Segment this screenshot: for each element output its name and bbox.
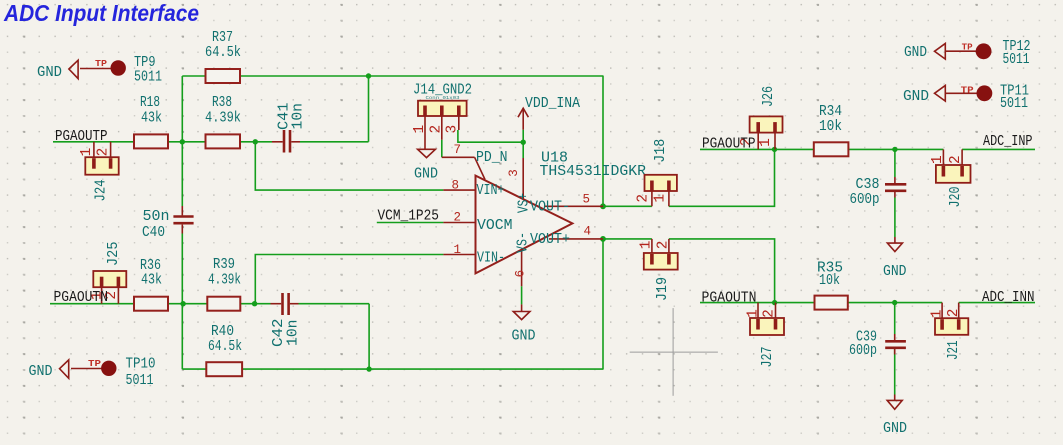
connector J21: [929, 303, 968, 360]
svg-text:4.39k: 4.39k: [205, 111, 241, 127]
junction R38/C41 VIN+ tap: [253, 139, 258, 144]
svg-text:PGAOUTN: PGAOUTN: [54, 290, 109, 306]
svg-text:43k: 43k: [141, 111, 162, 127]
svg-text:VIN-: VIN-: [477, 251, 505, 267]
svg-text:50n: 50n: [143, 209, 170, 225]
ground below C38: [883, 237, 907, 280]
connector J27: [746, 303, 784, 368]
svg-text:3: 3: [444, 125, 460, 134]
svg-text:GND: GND: [29, 364, 53, 380]
svg-text:ADC_INN: ADC_INN: [982, 290, 1035, 306]
wire J18 to J26: [669, 149, 775, 206]
svg-text:2: 2: [946, 309, 962, 318]
svg-text:R39: R39: [213, 257, 235, 273]
svg-text:1: 1: [746, 309, 762, 318]
wire PGAOUTN right row: [700, 302, 815, 304]
svg-text:TP: TP: [962, 42, 973, 53]
svg-text:PGAOUTN: PGAOUTN: [702, 291, 757, 307]
svg-text:2: 2: [428, 125, 444, 134]
connector J20: [930, 149, 971, 207]
wire J14 pin2 to PD_N: [441, 140, 443, 158]
wire VOUT+ to J19: [603, 238, 652, 240]
wire vertical x182 top: [181, 76, 183, 206]
svg-text:GND: GND: [883, 264, 907, 280]
svg-text:PD_N: PD_N: [476, 150, 508, 166]
ground below C39: [883, 395, 907, 438]
svg-text:VOCM: VOCM: [477, 218, 513, 234]
wire C38 to GND: [894, 198, 896, 238]
svg-text:PGAOUTP: PGAOUTP: [702, 137, 756, 153]
svg-text:1: 1: [758, 138, 774, 147]
svg-text:ADC_INP: ADC_INP: [983, 134, 1033, 150]
junction C38 tap: [892, 147, 897, 152]
op-amp pin 8 VIN+: [443, 179, 504, 200]
wire VOUT- to J18: [603, 205, 652, 207]
svg-text:GND: GND: [883, 421, 907, 437]
wire to ADC_INN: [959, 302, 1035, 304]
svg-text:VIN+: VIN+: [477, 183, 505, 199]
resistor R34: [814, 104, 849, 156]
junction J27 pin2 node: [772, 300, 777, 305]
svg-text:7: 7: [454, 143, 462, 157]
svg-text:TP: TP: [95, 58, 107, 69]
junction R37 top row: [366, 73, 371, 78]
svg-text:J27: J27: [760, 347, 776, 368]
connector J18: [636, 139, 677, 207]
svg-text:10n: 10n: [286, 320, 302, 347]
wire R36 to R39: [168, 303, 207, 305]
wire J19 to PGAOUTN node: [669, 239, 775, 303]
wire PGAOUTP right row: [700, 148, 814, 150]
junction R40 bottom row: [366, 366, 371, 371]
wire C42 down to R40 row: [368, 304, 370, 369]
connector J24: [79, 142, 119, 202]
svg-text:3: 3: [507, 169, 521, 177]
svg-text:J19: J19: [655, 277, 671, 301]
svg-text:2: 2: [761, 309, 777, 318]
svg-text:6: 6: [514, 270, 528, 278]
svg-text:R40: R40: [211, 324, 234, 340]
svg-text:C40: C40: [142, 225, 165, 241]
svg-text:GND: GND: [37, 65, 62, 81]
junction C39 tap: [892, 300, 897, 305]
svg-text:J24: J24: [94, 179, 110, 201]
svg-text:GND: GND: [904, 45, 927, 61]
op-amp pin 3 VS+: [507, 158, 533, 213]
wire R40 row up to VOUT+: [602, 239, 604, 369]
test point TP10: [29, 357, 156, 390]
svg-text:1: 1: [930, 155, 946, 164]
junction VDD_INA / pin 3: [521, 140, 526, 145]
test point TP9: [37, 55, 162, 86]
wire top row down to VOUT-: [602, 76, 604, 206]
op-amp pin 5 VOUT-: [530, 193, 603, 216]
junction R36/R39 node: [180, 301, 185, 306]
junction R39/C42 VIN- tap: [252, 301, 257, 306]
wire C41 up to top row: [368, 76, 370, 142]
resistor R37: [205, 30, 241, 83]
resistor R38: [205, 95, 241, 148]
wire R40 row: [182, 368, 206, 370]
svg-text:PGAOUTP: PGAOUTP: [55, 129, 108, 145]
svg-text:1: 1: [929, 310, 945, 319]
wire top row R37: [182, 75, 205, 77]
capacitor C41: [272, 102, 307, 152]
ground below pin 6: [512, 304, 536, 344]
svg-text:5011: 5011: [1003, 52, 1030, 68]
svg-text:VCM_1P25: VCM_1P25: [378, 209, 440, 225]
svg-text:GND: GND: [512, 329, 536, 345]
svg-text:J21: J21: [946, 340, 962, 360]
svg-text:1: 1: [454, 243, 462, 257]
resistor R36: [134, 258, 168, 311]
svg-text:10n: 10n: [291, 103, 307, 130]
svg-text:64.5k: 64.5k: [205, 45, 241, 61]
op-amp pin 6 VS-: [514, 232, 532, 286]
op-amp pin 4 VOUT+: [530, 225, 603, 249]
svg-text:4.39k: 4.39k: [208, 273, 241, 289]
wire C38 drop: [894, 149, 896, 177]
svg-text:R38: R38: [212, 95, 232, 111]
svg-text:4: 4: [584, 225, 592, 239]
wire to ADC_INP: [962, 148, 1035, 150]
svg-text:43k: 43k: [141, 273, 162, 289]
svg-text:J18: J18: [653, 139, 669, 163]
wire R38 to C41: [240, 141, 272, 143]
svg-text:C38: C38: [856, 177, 880, 193]
svg-text:TP: TP: [961, 84, 974, 95]
op-amp pin 7 PD_N: [442, 143, 508, 180]
svg-text:J26: J26: [761, 86, 777, 107]
svg-text:2: 2: [636, 194, 652, 203]
wire R35 to C39 node: [848, 302, 942, 304]
svg-text:R34: R34: [819, 104, 842, 120]
resistor R18: [134, 95, 168, 148]
cursor crosshair: [630, 308, 718, 396]
wire C41 right: [300, 141, 369, 143]
svg-text:2: 2: [96, 148, 112, 157]
wire VIN-: [255, 255, 443, 304]
op-amp U18: [476, 151, 647, 274]
wire C39 drop: [894, 303, 896, 334]
wire R39 to C42: [240, 303, 270, 305]
op-amp pin 2 VOCM: [443, 210, 512, 234]
resistor R39: [207, 257, 241, 311]
svg-text:1: 1: [652, 194, 668, 203]
test point TP11: [903, 84, 1029, 113]
svg-text:10k: 10k: [819, 119, 842, 135]
connector J19: [638, 239, 677, 301]
svg-text:1: 1: [638, 241, 654, 250]
svg-text:R37: R37: [212, 30, 233, 46]
resistor R40: [206, 324, 242, 376]
junction VOUT- node: [600, 203, 606, 209]
wire C42 right: [299, 303, 370, 305]
svg-text:R18: R18: [140, 95, 160, 111]
svg-text:VDD_INA: VDD_INA: [525, 96, 580, 112]
svg-text:GND: GND: [903, 89, 929, 105]
svg-text:1: 1: [412, 125, 428, 134]
svg-text:600p: 600p: [849, 343, 877, 359]
wire pin6 to GND: [521, 286, 523, 304]
svg-text:TP10: TP10: [126, 357, 156, 373]
svg-text:64.5k: 64.5k: [208, 339, 242, 355]
svg-text:GND: GND: [414, 167, 438, 183]
wire VOCM: [377, 222, 444, 224]
capacitor C39: [849, 330, 906, 360]
svg-text:Conn_01x03: Conn_01x03: [426, 95, 460, 101]
svg-text:5011: 5011: [1000, 96, 1028, 112]
junction VOUT+ node: [600, 236, 606, 242]
svg-text:5: 5: [583, 193, 591, 207]
wire J14 pin3 to VS+: [458, 130, 523, 142]
svg-text:ADC Input Interface: ADC Input Interface: [3, 0, 199, 26]
wire PGAOUTP left to R18: [53, 141, 134, 143]
svg-text:J20: J20: [948, 187, 964, 208]
wire VIN+: [255, 142, 443, 190]
svg-text:5011: 5011: [134, 70, 162, 86]
svg-text:TP: TP: [88, 358, 101, 369]
svg-text:1: 1: [79, 148, 95, 157]
svg-text:10k: 10k: [819, 273, 840, 289]
wire R34 to C38 node: [848, 148, 943, 150]
capacitor C42: [271, 293, 302, 347]
capacitor C40: [142, 206, 194, 241]
svg-text:THS4531IDGKR: THS4531IDGKR: [540, 164, 647, 180]
op-amp pin 1 VIN-: [443, 243, 505, 267]
svg-text:600p: 600p: [850, 192, 880, 208]
svg-text:VOUT+: VOUT+: [530, 232, 570, 248]
capacitor C38: [850, 177, 907, 208]
svg-text:8: 8: [452, 179, 460, 193]
svg-text:J25: J25: [106, 242, 122, 267]
connector J26: [739, 86, 782, 149]
junction J26 pin1 node: [772, 147, 777, 152]
svg-text:2: 2: [454, 210, 462, 224]
wire R18 to R38: [168, 141, 206, 143]
test point TP12: [904, 39, 1031, 68]
resistor R35: [815, 261, 848, 310]
svg-text:2: 2: [656, 241, 672, 250]
junction R18/R38 node: [180, 139, 185, 144]
connector J25: [90, 242, 127, 304]
wire PGAOUTN left to R36: [50, 303, 134, 305]
wire vertical x182 mid: [181, 234, 183, 370]
svg-text:VOUT-: VOUT-: [530, 200, 570, 216]
power VDD_INA: [518, 96, 580, 142]
svg-text:2: 2: [948, 155, 964, 164]
connector J14_GND2: [412, 83, 472, 149]
svg-text:5011: 5011: [126, 373, 154, 389]
wire C39 to GND: [894, 349, 896, 395]
ground below J14 pin1: [414, 149, 438, 182]
wire VDD to pin3: [522, 142, 524, 158]
